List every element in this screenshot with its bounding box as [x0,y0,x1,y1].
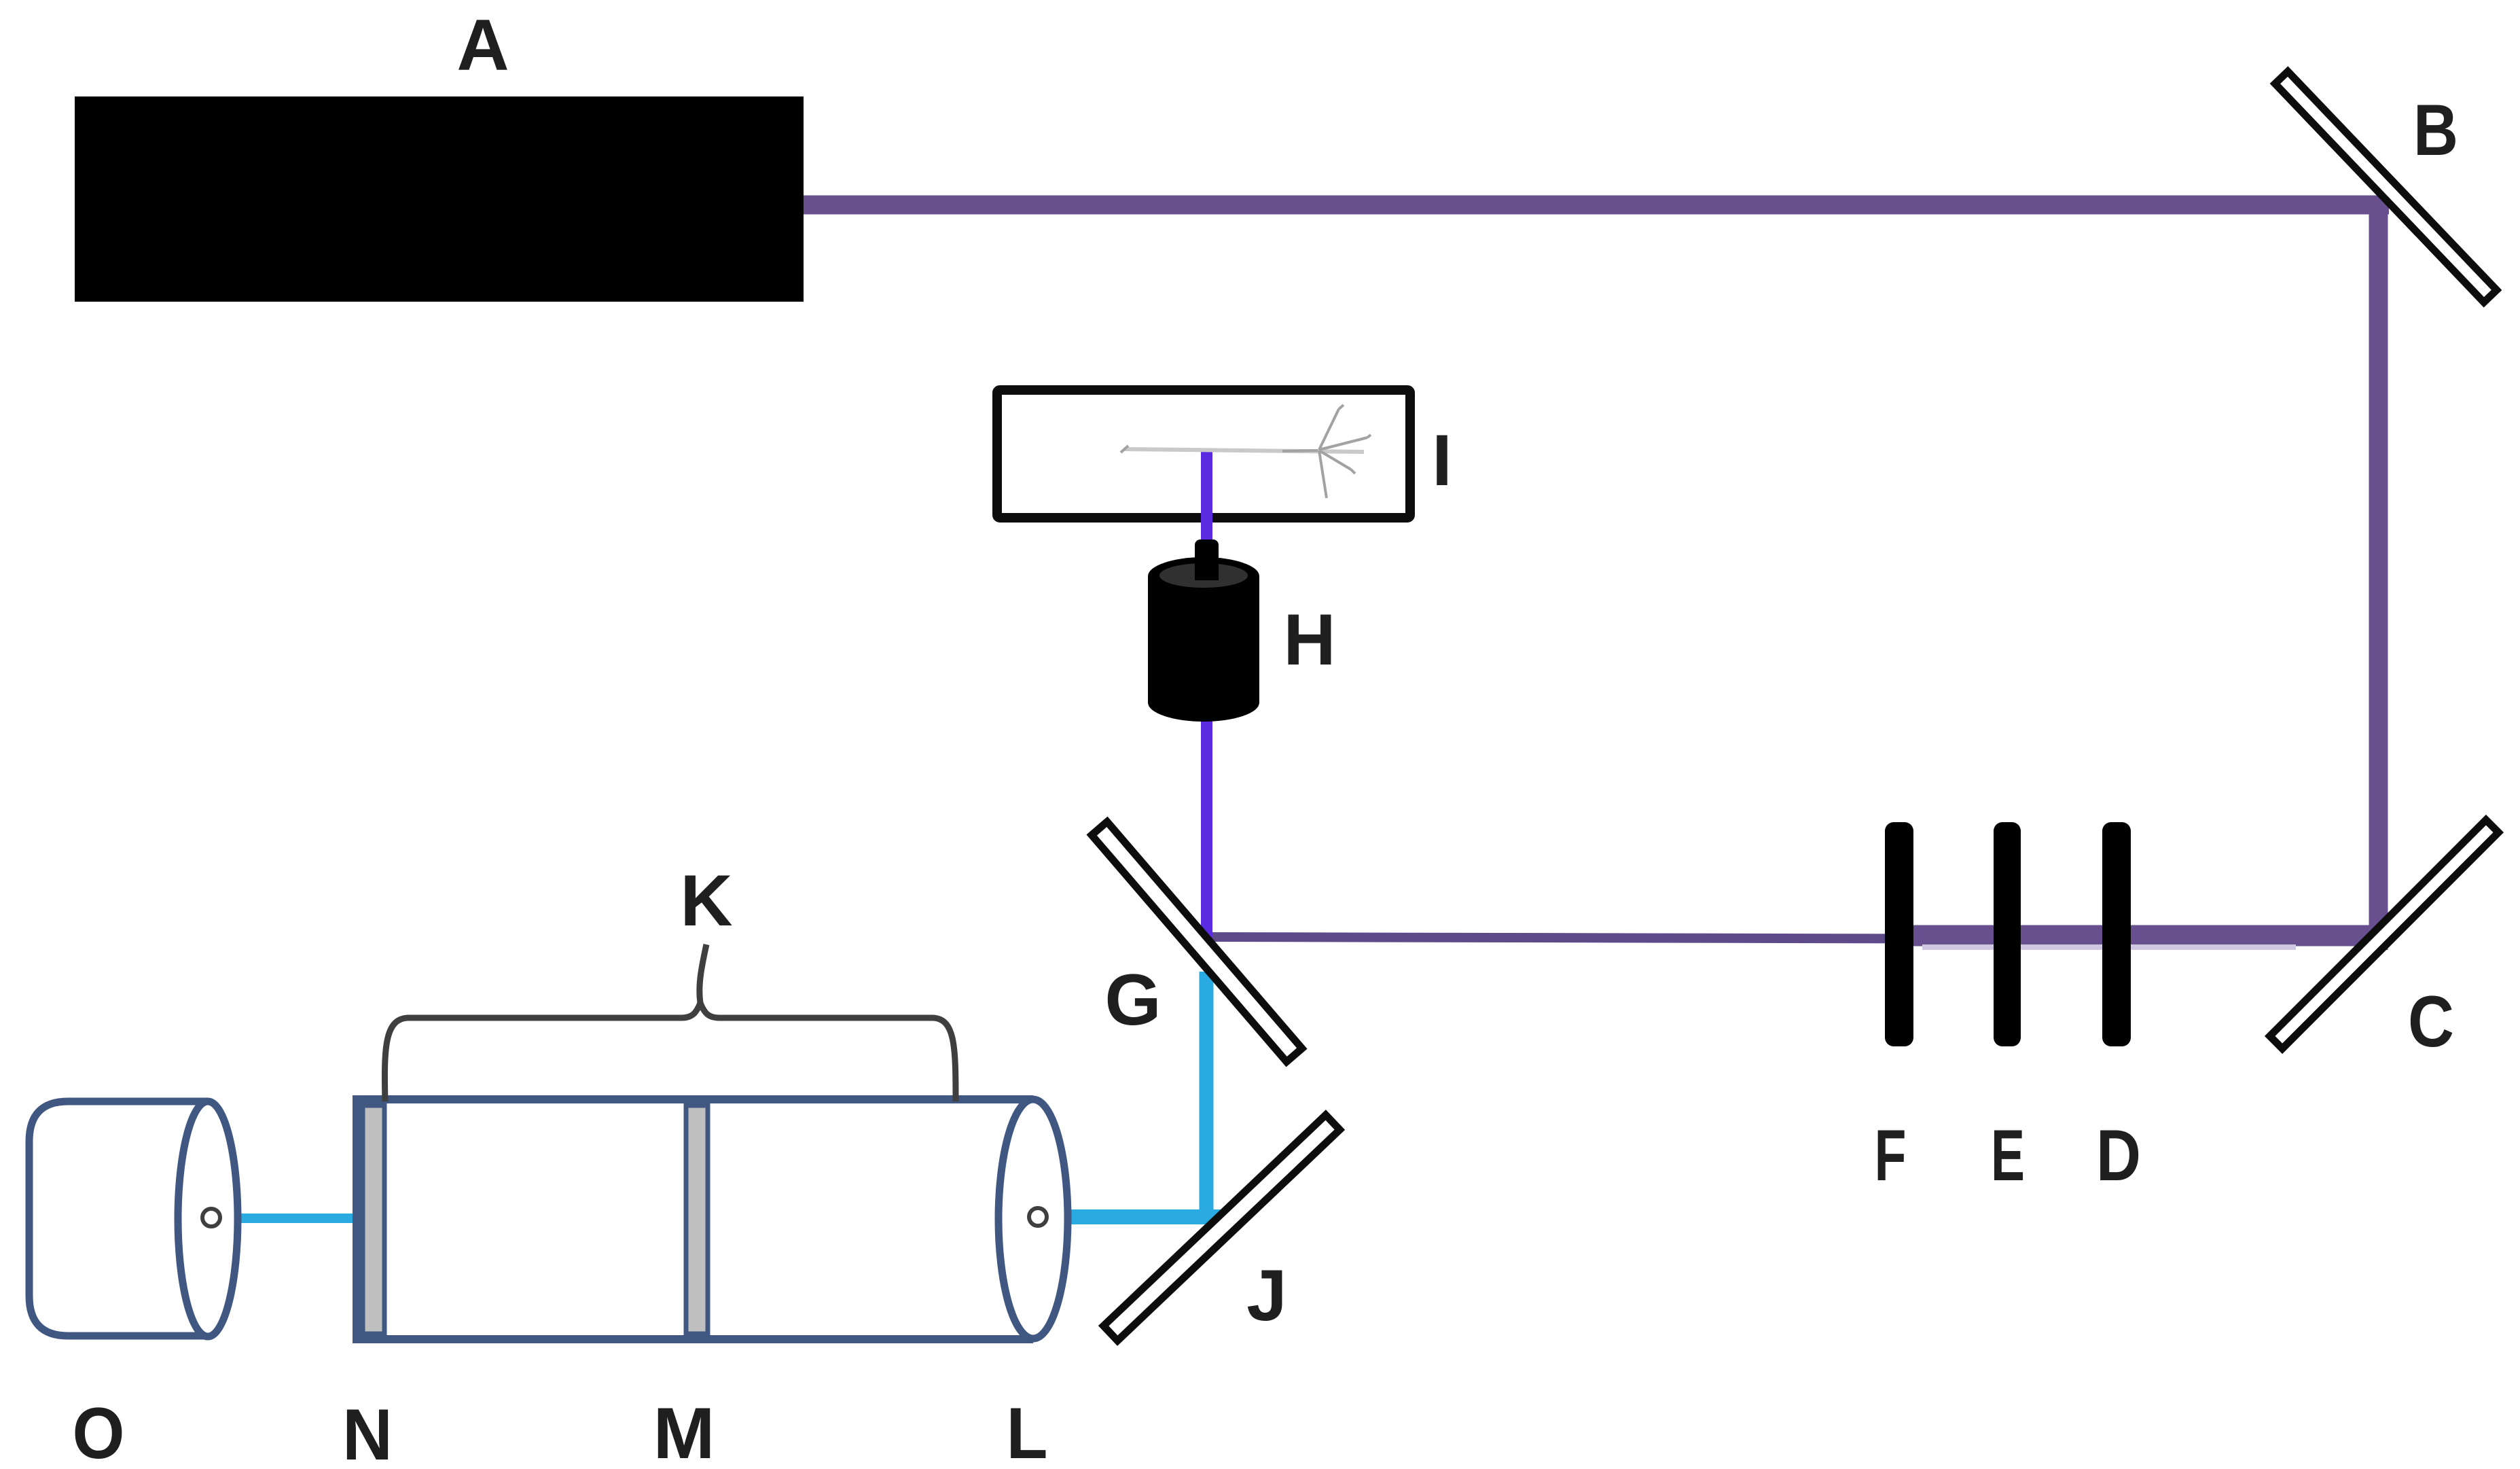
svg-text:D: D [2096,1114,2141,1196]
svg-text:B: B [2413,89,2458,171]
svg-text:N: N [342,1394,393,1466]
svg-text:K: K [680,860,732,941]
svg-text:M: M [653,1392,715,1466]
svg-text:J: J [1246,1254,1287,1336]
svg-text:L: L [1007,1392,1048,1466]
svg-text:H: H [1283,599,1335,680]
svg-text:C: C [2408,980,2454,1062]
svg-text:E: E [1991,1114,2025,1196]
svg-text:I: I [1432,419,1452,501]
svg-text:O: O [73,1392,125,1466]
svg-text:F: F [1875,1114,1907,1196]
svg-text:G: G [1104,959,1161,1040]
svg-text:A: A [456,4,509,86]
